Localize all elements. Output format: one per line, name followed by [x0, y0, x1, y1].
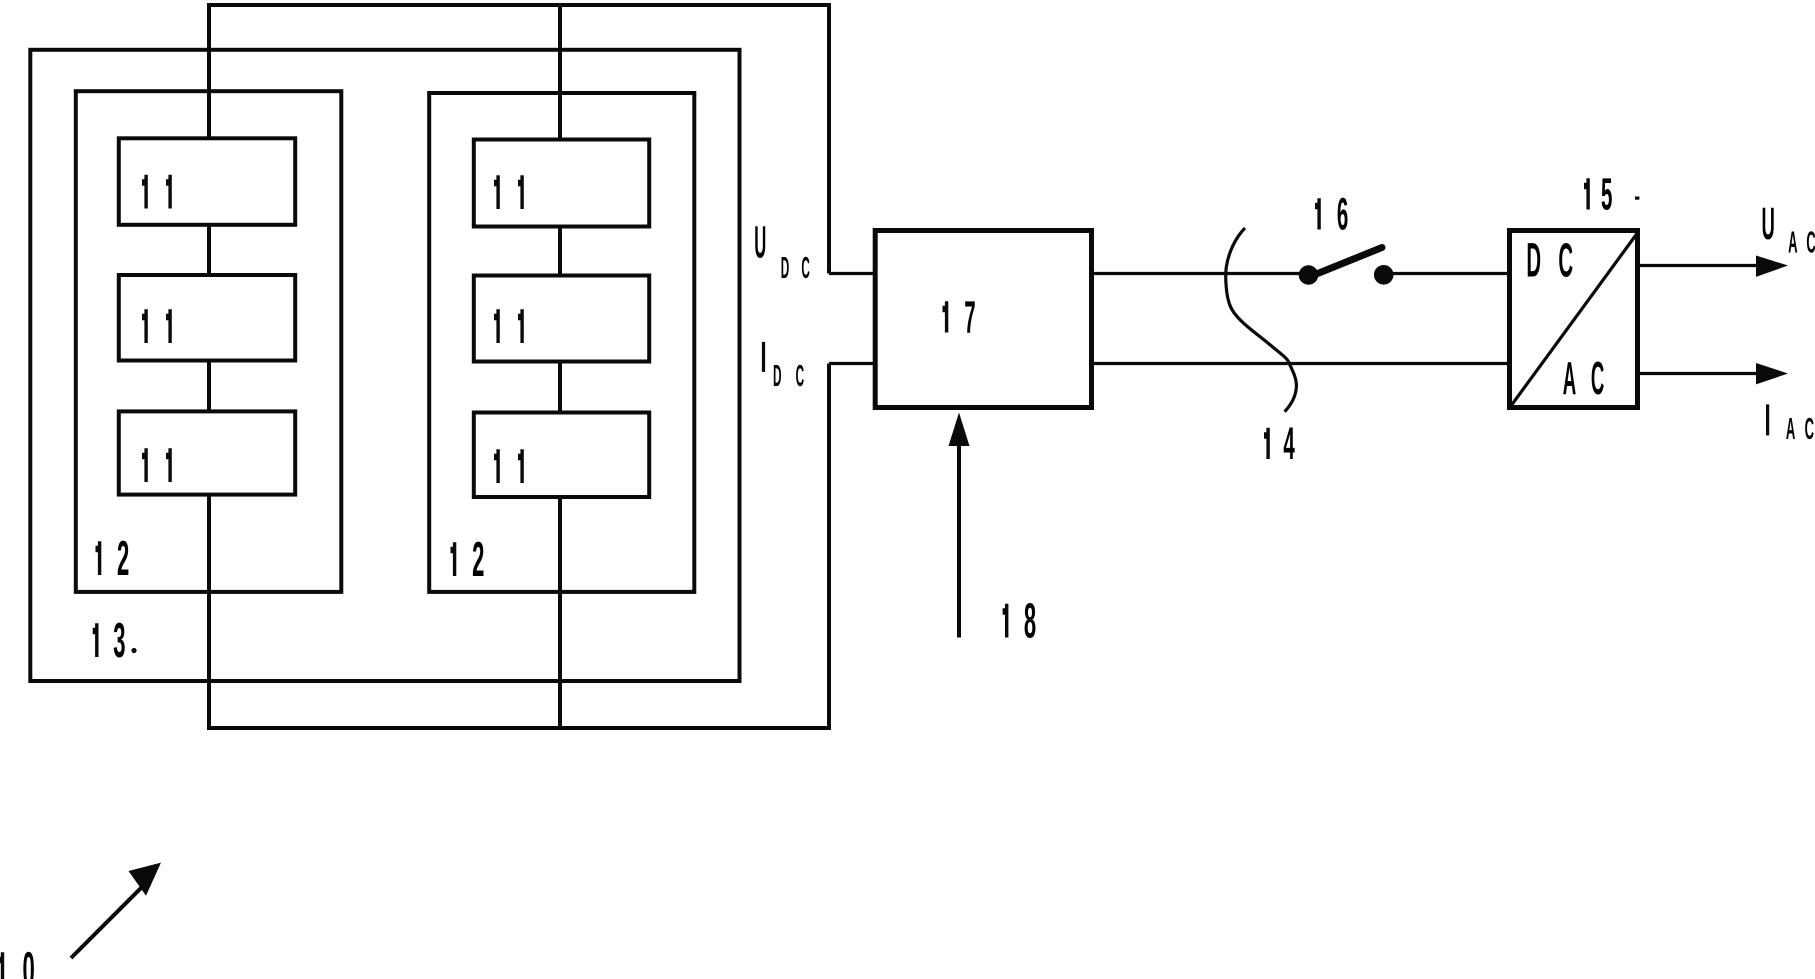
label 13 (array box) glyph 1 — [93, 623, 99, 657]
PV module 11 (right, middle) — [474, 276, 649, 362]
wire: AC output top (U_AC) — [1640, 264, 1760, 267]
svg-text:U: U — [754, 218, 766, 268]
label 17 (measuring unit) glyph 1 — [943, 301, 949, 332]
net label I_DC subscript — [773, 358, 804, 392]
wire: U_DC lead into measuring unit 17 — [829, 272, 875, 275]
arrowhead U_AC — [1756, 256, 1788, 277]
inverter diagonal — [1511, 232, 1639, 407]
switch 16 contact dot (right) — [1374, 265, 1394, 285]
svg-text:U: U — [1761, 200, 1774, 250]
svg-text:3: 3 — [113, 614, 125, 668]
wire: AC output bottom (I_AC) — [1640, 372, 1760, 375]
label 11 (right string, top module) glyph 1 — [518, 175, 524, 209]
label 11 (right string, middle module) glyph 1 — [494, 309, 500, 343]
label 18 (control input) glyph 1 — [1003, 604, 1009, 638]
reference arrow 10 head — [129, 863, 162, 896]
output label U_AC — [1761, 200, 1774, 250]
label 12 (left string box) — [117, 532, 129, 586]
label 13 (array box) — [113, 614, 125, 668]
label 10 (system) — [23, 943, 35, 979]
svg-text:2: 2 — [117, 532, 129, 586]
wire: string 2 series link (vertical x=560) — [558, 5, 562, 728]
net label I_DC glyph I — [762, 342, 765, 372]
svg-text:2: 2 — [472, 533, 484, 587]
PV module 11 (right, bottom) — [474, 413, 649, 498]
arrowhead I_AC — [1756, 363, 1788, 384]
label 14 (DC line) glyph 1 — [1264, 428, 1270, 459]
label 18 (control input) — [1024, 595, 1036, 649]
label 16 (switch) glyph 1 — [1315, 198, 1321, 229]
PV module 11 (left, middle) — [119, 275, 295, 361]
svg-text:A: A — [1786, 411, 1795, 446]
output label I_AC subscript — [1786, 411, 1814, 446]
wire: I_DC lead into measuring unit 17 — [829, 362, 875, 365]
svg-text:D: D — [781, 250, 790, 284]
svg-text:6: 6 — [1337, 190, 1348, 240]
string box 12 (left) — [76, 91, 342, 592]
label 16 (switch) — [1337, 190, 1348, 240]
speck right of label 15 — [1635, 197, 1639, 200]
label 11 (left string, middle module) glyph 1 — [166, 309, 172, 343]
control arrow 18 stem — [957, 446, 961, 638]
svg-text:C: C — [1805, 411, 1814, 446]
label 11 (right string, bottom module) glyph 1 — [494, 449, 500, 483]
array boundary box 13 — [30, 50, 739, 681]
label 11 (right string, bottom module) glyph 1 — [518, 449, 524, 483]
svg-text:A: A — [1788, 225, 1797, 260]
output label I_AC glyph I — [1766, 404, 1769, 435]
svg-text:4: 4 — [1283, 419, 1295, 469]
net label U_DC subscript — [781, 250, 810, 284]
svg-text:C: C — [796, 358, 805, 392]
label 12 (right string box) glyph 1 — [451, 542, 457, 576]
string box 12 (right) — [429, 93, 694, 592]
wire: box17 to switch 16 (top) — [1092, 272, 1309, 275]
label 11 (left string, top module) glyph 1 — [142, 175, 148, 209]
line break squiggle 14 — [1226, 228, 1297, 412]
label 11 (left string, bottom module) glyph 1 — [166, 448, 172, 482]
svg-text:C: C — [1558, 232, 1573, 287]
label 15 (inverter) — [1601, 170, 1612, 220]
wire: DC bus right vertical (x=829) — [827, 3, 831, 730]
inverter text AC — [1563, 352, 1605, 405]
period after label 13 — [131, 648, 136, 653]
svg-text:C: C — [1806, 225, 1815, 260]
measuring unit box 17 — [875, 231, 1091, 408]
net label U_DC — [754, 218, 766, 268]
label 12 (right string box) — [472, 533, 484, 587]
svg-text:0: 0 — [23, 943, 35, 979]
switch 16 lever — [1309, 248, 1382, 278]
label 11 (left string, bottom module) glyph 1 — [142, 448, 148, 482]
svg-text:A: A — [1563, 352, 1576, 405]
svg-text:5: 5 — [1601, 170, 1612, 220]
svg-text:D: D — [773, 358, 782, 392]
inverter text DC — [1526, 232, 1573, 287]
label 17 (measuring unit) — [964, 293, 975, 343]
label 11 (right string, top module) glyph 1 — [494, 175, 500, 209]
PV module 11 (right, top) — [474, 140, 649, 227]
label 10 (system) glyph 1 — [0, 952, 4, 979]
label 11 (left string, middle module) glyph 1 — [142, 309, 148, 343]
wire: top bus from string1 top to DC bus — [209, 3, 829, 7]
output label U_AC subscript — [1788, 225, 1815, 260]
label 11 (right string, middle module) glyph 1 — [518, 309, 524, 343]
inverter box 15 — [1510, 231, 1638, 408]
label 15 (inverter) glyph 1 — [1584, 178, 1590, 209]
svg-text:8: 8 — [1024, 595, 1036, 649]
wire: switch 16 to inverter 15 (top) — [1384, 272, 1510, 275]
label 11 (left string, top module) glyph 1 — [166, 175, 172, 209]
reference arrow 10 stem — [71, 885, 144, 958]
label 14 (DC line) — [1283, 419, 1295, 469]
control arrow 18 head — [949, 413, 970, 447]
svg-text:C: C — [1591, 352, 1604, 405]
label 12 (left string box) glyph 1 — [96, 541, 102, 575]
wire: box17 to inverter 15 (bottom) — [1092, 362, 1510, 365]
switch 16 contact dot (left) — [1299, 265, 1319, 285]
PV module 11 (left, top) — [119, 138, 295, 225]
wire: bottom bus return — [207, 726, 831, 730]
PV module 11 (left, bottom) — [119, 411, 295, 494]
svg-text:7: 7 — [964, 293, 975, 343]
svg-text:D: D — [1526, 232, 1541, 287]
wire: string 1 series link (vertical x=209) — [207, 3, 211, 728]
svg-text:C: C — [801, 250, 810, 284]
